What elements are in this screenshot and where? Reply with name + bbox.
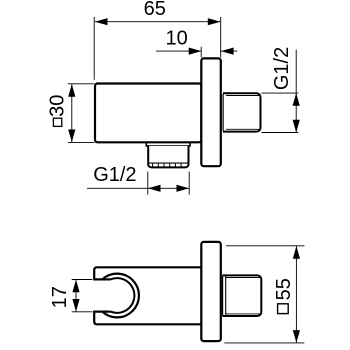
svg-text:55: 55 — [273, 278, 295, 300]
svg-text:65: 65 — [144, 0, 166, 20]
svg-text:17: 17 — [49, 286, 71, 308]
svg-text:G1/2: G1/2 — [93, 164, 136, 186]
svg-text:10: 10 — [165, 27, 187, 49]
svg-text:G1/2: G1/2 — [271, 47, 293, 90]
svg-text:30: 30 — [47, 95, 69, 117]
